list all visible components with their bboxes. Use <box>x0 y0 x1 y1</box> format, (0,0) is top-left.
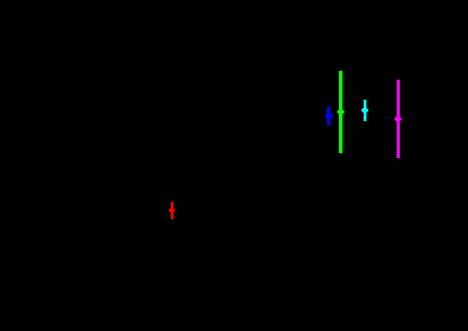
magenta error bar (series 5) <box>397 80 400 159</box>
magenta diamond marker (series 5) <box>394 115 402 123</box>
red diamond marker (series 1) <box>168 207 175 214</box>
green error bar (series 3) <box>339 71 343 154</box>
cyan error bar (series 4) <box>364 100 367 122</box>
blue diamond marker (series 2) <box>324 112 333 121</box>
cyan diamond marker (series 4) <box>361 106 369 114</box>
green diamond marker (series 3) <box>337 108 345 116</box>
red error bar (series 1) <box>171 202 174 220</box>
blue error bar (series 2) <box>327 107 331 126</box>
